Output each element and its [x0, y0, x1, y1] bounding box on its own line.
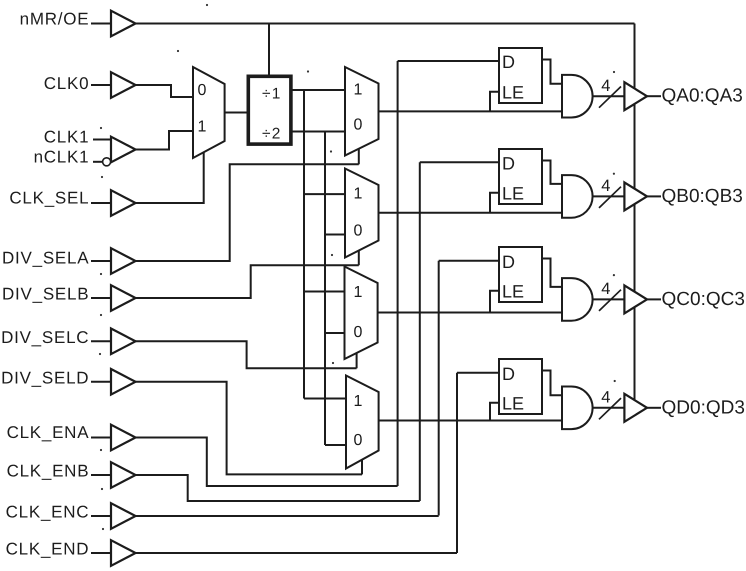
svg-text:0: 0 [198, 82, 207, 99]
svg-text:nMR/OE: nMR/OE [20, 10, 90, 29]
svg-text:CLK_ENC: CLK_ENC [6, 503, 90, 522]
svg-text:DIV_SELC: DIV_SELC [1, 328, 89, 347]
svg-text:0: 0 [354, 324, 363, 341]
svg-text:D: D [502, 364, 515, 384]
svg-text:0: 0 [354, 116, 363, 133]
svg-text:D: D [502, 153, 515, 173]
svg-text:1: 1 [354, 185, 363, 202]
svg-text:÷1: ÷1 [262, 85, 282, 102]
svg-text:÷2: ÷2 [262, 125, 282, 142]
svg-text:CLK1: CLK1 [44, 127, 90, 146]
svg-text:D: D [502, 252, 515, 272]
svg-text:4: 4 [601, 280, 610, 298]
svg-text:QB0:QB3: QB0:QB3 [662, 186, 743, 207]
svg-text:1: 1 [354, 284, 363, 301]
svg-text:0: 0 [354, 432, 363, 449]
svg-text:D: D [502, 52, 515, 72]
svg-text:DIV_SELB: DIV_SELB [2, 284, 89, 303]
svg-text:4: 4 [601, 177, 610, 195]
svg-text:4: 4 [601, 389, 610, 407]
svg-text:QA0:QA3: QA0:QA3 [662, 86, 743, 107]
svg-text:4: 4 [601, 77, 610, 95]
svg-text:LE: LE [502, 183, 524, 203]
svg-text:QD0:QD3: QD0:QD3 [662, 397, 745, 418]
svg-text:LE: LE [502, 82, 524, 102]
svg-text:CLK_ENB: CLK_ENB [7, 462, 90, 481]
svg-text:LE: LE [502, 281, 524, 301]
svg-text:DIV_SELA: DIV_SELA [2, 249, 89, 268]
svg-text:0: 0 [354, 222, 363, 239]
svg-text:1: 1 [354, 393, 363, 410]
svg-text:DIV_SELD: DIV_SELD [1, 368, 89, 387]
svg-text:1: 1 [198, 118, 207, 135]
svg-text:QC0:QC3: QC0:QC3 [662, 289, 745, 310]
svg-text:CLK_ENA: CLK_ENA [7, 423, 90, 442]
svg-text:nCLK1: nCLK1 [34, 147, 90, 166]
svg-text:CLK_SEL: CLK_SEL [9, 189, 89, 208]
svg-text:LE: LE [502, 393, 524, 413]
svg-text:CLK0: CLK0 [44, 74, 90, 93]
svg-text:1: 1 [354, 82, 363, 99]
svg-text:CLK_END: CLK_END [6, 540, 90, 559]
